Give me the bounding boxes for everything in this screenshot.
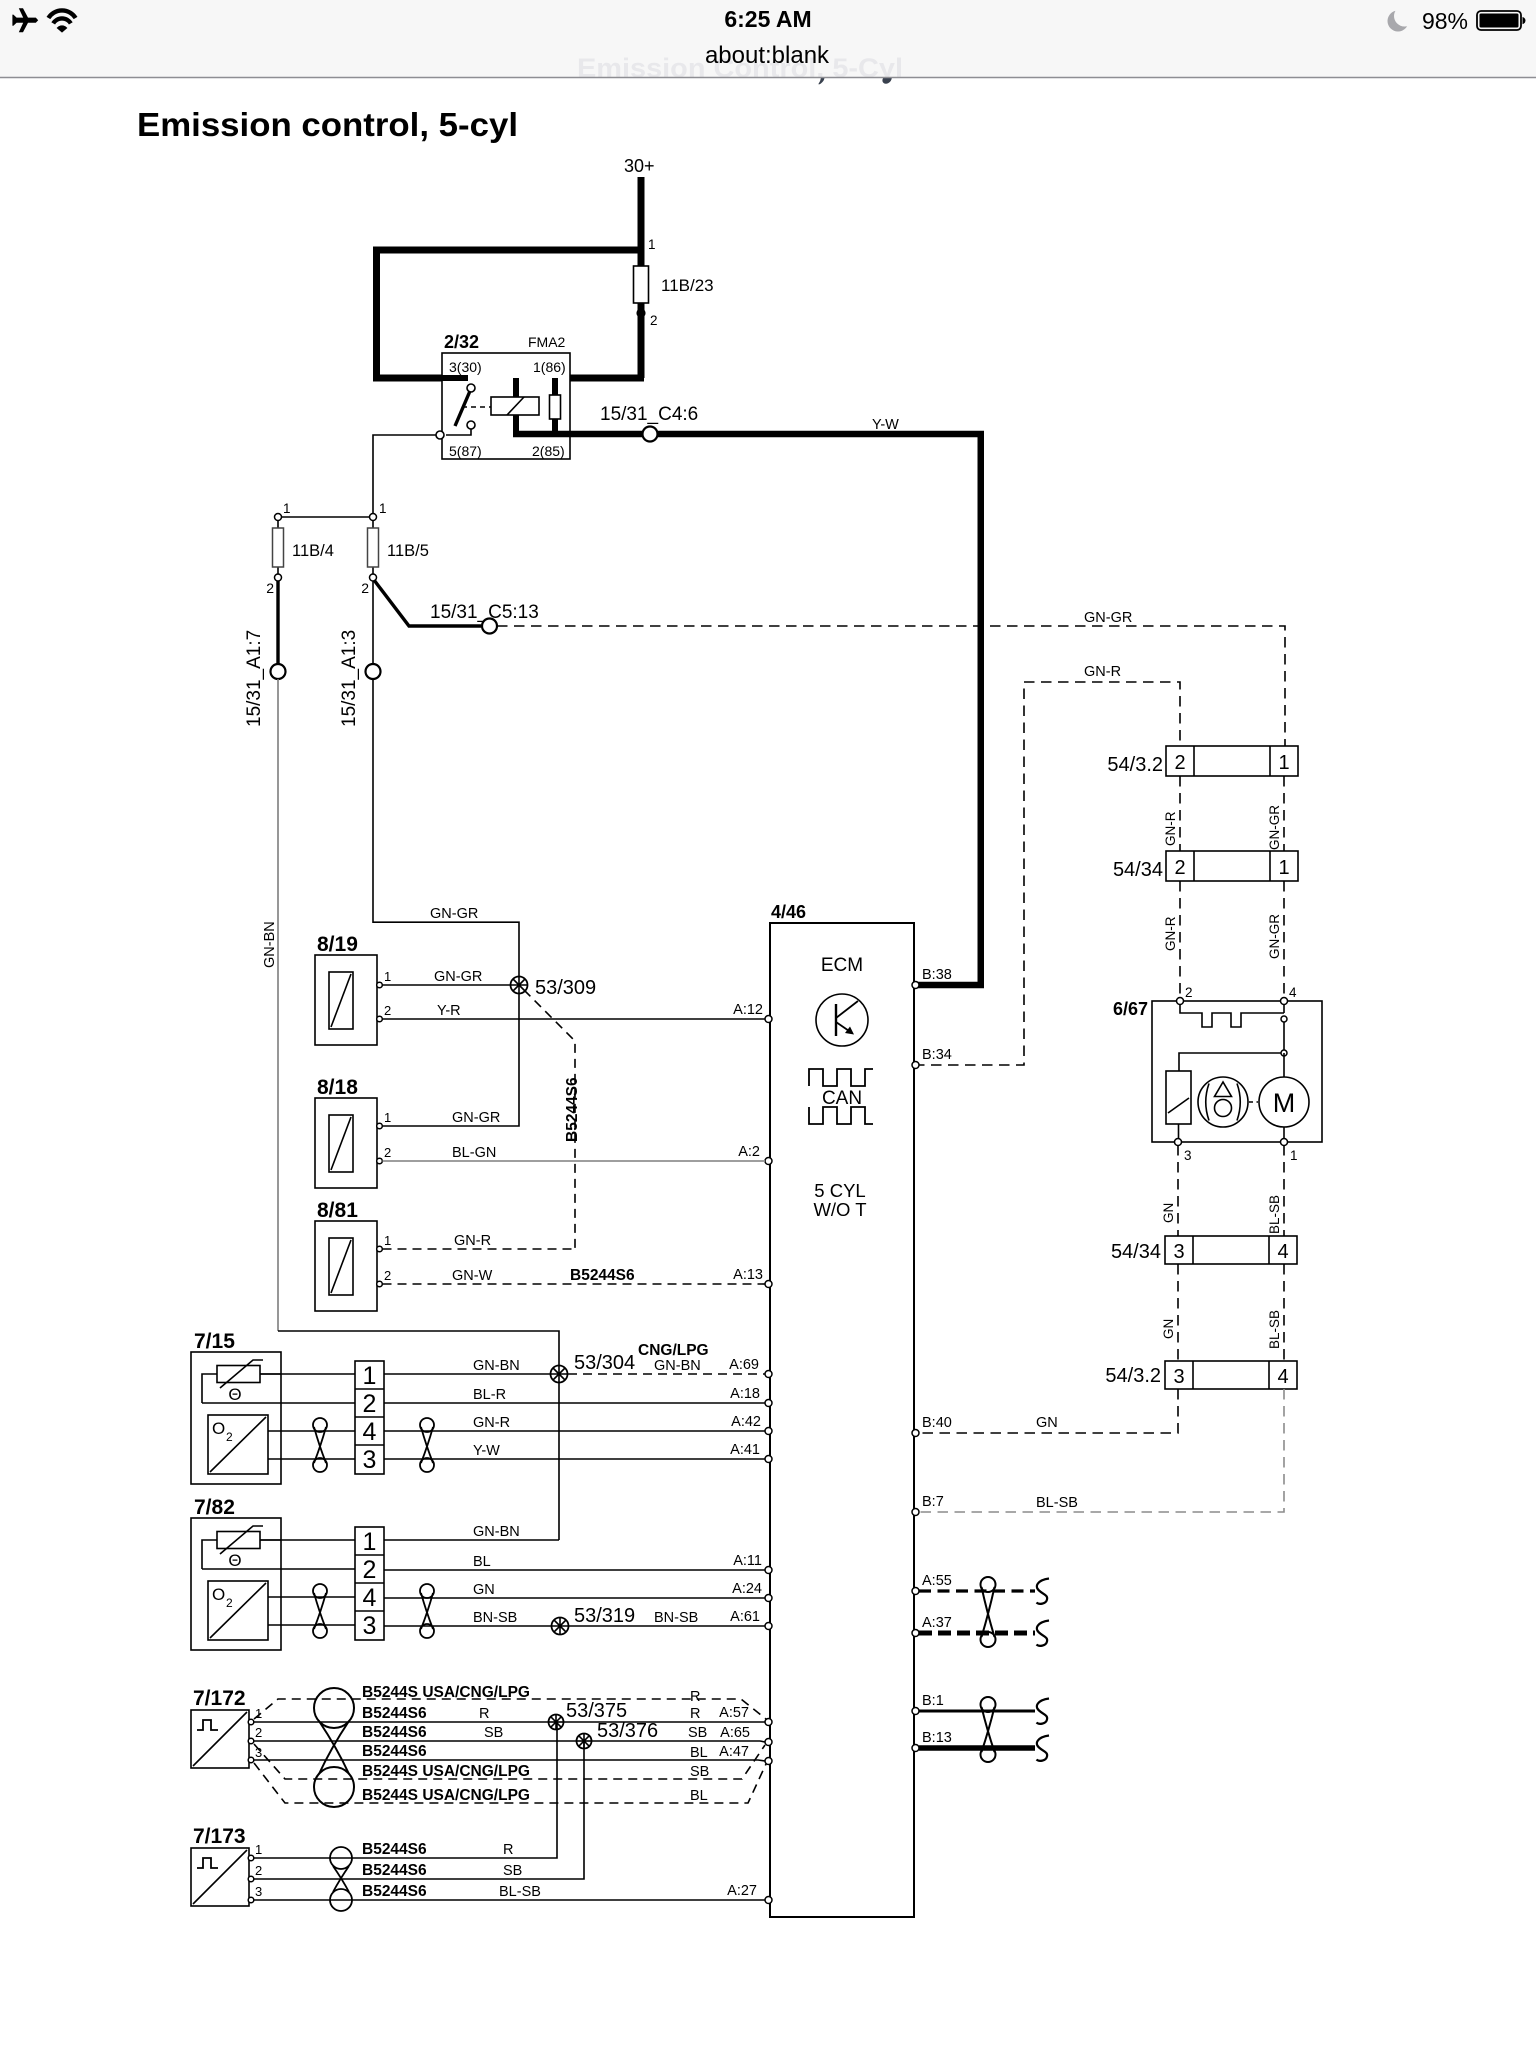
svg-text:1: 1 [363,1528,377,1556]
wire thick bus: horizontal to relay branch [373,247,641,254]
7/173 pin 2 [248,1876,254,1882]
svg-text:2: 2 [384,1145,391,1160]
wire B5244S6 dashed branch from splice down [524,990,575,1249]
sensor 8/81 box [315,1221,377,1311]
svg-text:B5244S6: B5244S6 [362,1743,427,1760]
svg-text:3: 3 [1173,1366,1184,1388]
svg-text:2: 2 [255,1863,262,1878]
svg-text:GN-R: GN-R [473,1415,510,1431]
svg-text:1: 1 [255,1706,262,1721]
ECM pin B:7 [912,1509,919,1516]
ECM pin A:65 [765,1739,772,1746]
wire BL-R 7/15 row2 to ECM A:18 [384,1402,765,1404]
svg-text:BL-SB: BL-SB [1036,1495,1078,1511]
svg-text:A:61: A:61 [730,1609,760,1625]
relay switch contact to 5(87) wire [446,429,471,435]
svg-text:1: 1 [255,1842,262,1857]
6/67 pin 3 [1175,1139,1182,1146]
airplane mode icon [12,8,38,32]
wire GN-GR dashed between 54/3.2 and 54/34 [1283,776,1285,851]
svg-text:1: 1 [648,237,656,252]
svg-text:54/3.2: 54/3.2 [1105,1365,1161,1387]
svg-text:CAN: CAN [822,1088,862,1109]
8/19 pin 2 [377,1016,383,1022]
relay 2/32 box [442,353,570,459]
wire GN-BN dashed CNG/LPG branch to ECM A:69 [568,1373,765,1375]
fuse 11B/23 [634,266,649,303]
ECM pin B:13 [912,1745,919,1752]
ECM pin A:12 [765,1016,772,1023]
6/67 motor M [1283,1053,1285,1077]
node pin 1 of 11B/4 [275,514,282,521]
relay pin 2(85) thick wire out [513,431,642,438]
svg-text:BN-SB: BN-SB [654,1610,698,1626]
relay coil [491,397,539,415]
7/82 O2 row wires [268,1596,355,1598]
6/67 sender resistor track (square wave) [1180,1004,1284,1027]
wire B:1 stub [919,1710,1035,1713]
node pin 2 of 11B/5 [370,574,377,581]
twisted pair B:1/B:13 [981,1697,996,1712]
svg-text:1: 1 [1278,752,1289,774]
svg-text:5 CYL: 5 CYL [814,1180,865,1201]
6/67 pin 1 [1281,1139,1288,1146]
svg-text:30+: 30+ [624,156,655,176]
svg-text:B5244S6: B5244S6 [362,1724,427,1741]
svg-text:SB: SB [688,1725,707,1741]
svg-text:7/173: 7/173 [193,1825,246,1848]
svg-text:A:11: A:11 [733,1553,762,1569]
ECM pin A:2 [765,1158,772,1165]
svg-text:GN-BN: GN-BN [654,1358,701,1374]
ECM pin A:18 [765,1400,772,1407]
wire from A1:3 down to GN-GR branch [372,679,374,923]
svg-text:A:13: A:13 [733,1267,763,1283]
svg-text:2(85): 2(85) [532,443,565,459]
page heading showing under toolbar (descenders of comma and y) [819,78,825,84]
wire A:55 CAN high dashed stub [919,1589,1035,1592]
fuse 11B/4 [277,521,279,575]
svg-text:Θ: Θ [228,1551,241,1570]
svg-text:54/34: 54/34 [1111,1241,1161,1263]
wire BL-SB dashed 6/67 pin1 to 54/34 [1283,1145,1285,1236]
wire BL-GN (gray) 8/18 pin 2 to ECM A:2 [383,1160,766,1162]
relay switch arm [455,391,470,426]
svg-text:R: R [690,1689,700,1705]
ECM pin A:37 [912,1630,919,1637]
svg-text:CNG/LPG: CNG/LPG [638,1342,709,1359]
svg-text:11B/23: 11B/23 [661,276,714,295]
wire GN-BN trunk right and down [278,1331,559,1537]
svg-text:B5244S USA/CNG/LPG: B5244S USA/CNG/LPG [362,1763,530,1780]
7/15 heater leads [202,1374,281,1403]
wire SB 7/173 pin2 up to splice 53/376 [254,1741,584,1879]
svg-text:GN-GR: GN-GR [1267,914,1282,959]
svg-text:15/31_A1:3: 15/31_A1:3 [339,630,360,727]
svg-text:A:24: A:24 [732,1581,762,1597]
svg-text:GN: GN [1161,1203,1176,1223]
svg-text:GN-GR: GN-GR [1267,805,1282,850]
svg-text:54/34: 54/34 [1113,859,1163,881]
svg-text:B5244S6: B5244S6 [362,1705,427,1722]
svg-text:2: 2 [1174,752,1185,774]
6/67 sender element [1166,1071,1191,1124]
ECM pin A:42 [765,1428,772,1435]
wire BL 7/82 row2 to ECM A:11 [384,1569,765,1571]
svg-text:2: 2 [1185,985,1193,1000]
wire dashed B5244S USA/CNG/LPG BL [254,1763,766,1803]
svg-text:53/376: 53/376 [597,1720,658,1742]
svg-text:GN-GR: GN-GR [452,1110,500,1126]
wire GN-W dashed 8/81 pin 2 to ECM A:13 [383,1283,766,1285]
svg-text:GN-BN: GN-BN [262,921,278,968]
splice 53/376 [577,1734,592,1749]
7/82 heater resistor [217,1532,260,1549]
svg-text:1: 1 [283,501,291,516]
svg-text:7/82: 7/82 [194,1496,235,1519]
svg-text:1: 1 [384,969,391,984]
svg-text:7/15: 7/15 [194,1330,235,1353]
relay switch feed (thick stub inside) [442,375,468,381]
node pin 2 of 11B/4 [275,574,282,581]
svg-text:11B/5: 11B/5 [387,542,429,560]
svg-text:A:2: A:2 [738,1144,760,1160]
wire BL-SB 7/173 pin3 to ECM A:27 [254,1899,765,1901]
svg-text:6:25 AM: 6:25 AM [724,6,811,32]
wire GN-R dashed from ECM B:34 up and over to 54/3.2 pin 2 [914,682,1180,1065]
wire dashed B5244S USA/CNG/LPG SB [254,1744,765,1779]
svg-text:2: 2 [266,580,274,596]
twisted pair 7/82 outer [420,1584,434,1598]
svg-text:SB: SB [484,1725,503,1741]
svg-text:2: 2 [255,1725,262,1740]
wire SB 7/172 pin2 to splice 53/376 and ECM A:65 [254,1741,765,1742]
wire thick 11B/4 pin2 to connector A1:7 [276,581,279,664]
wire fuse rail linking 11B/4 and 11B/5 tops [282,516,370,518]
svg-text:BL: BL [473,1554,491,1570]
svg-text:4: 4 [363,1418,377,1446]
wire Y-R 8/19 pin 2 to ECM A:12 [383,1018,766,1020]
wire GN dashed 6/67 pin3 to 54/34 [1177,1145,1179,1236]
sensor 8/19 box [315,955,377,1045]
ECM pin A:57 [765,1719,772,1726]
ECM CAN symbol [809,1069,873,1086]
svg-text:R: R [479,1706,489,1722]
ECM transistor symbol [816,994,868,1046]
svg-text:O: O [212,1419,225,1438]
relay pin 5(87) terminal circle [436,431,444,439]
svg-text:Y-R: Y-R [437,1003,461,1019]
svg-text:4/46: 4/46 [771,902,806,922]
6/67 internal link [1283,1022,1285,1050]
7/15 O2 row wires [268,1430,355,1432]
svg-text:A:69: A:69 [729,1357,759,1373]
svg-text:1(86): 1(86) [533,359,566,375]
svg-text:A:37: A:37 [922,1615,952,1631]
connector pin block 7/15 [355,1361,384,1474]
relay actuation dashed link [462,406,491,408]
wire Y-W 7/15 row3 to ECM A:41 [384,1458,765,1460]
wire GN 7/82 row4 to ECM A:24 [384,1597,765,1599]
7/173 pin 1 [248,1855,254,1861]
svg-text:GN-GR: GN-GR [434,969,482,985]
svg-text:A:18: A:18 [730,1386,760,1402]
connector 15/31_A1:7 [271,664,286,679]
svg-text:2: 2 [363,1390,377,1418]
svg-text:A:41: A:41 [730,1442,760,1458]
svg-text:53/309: 53/309 [535,977,596,999]
ECM pin A:24 [765,1595,772,1602]
wire GN-R 7/15 row4 to ECM A:42 [384,1430,765,1432]
ECM pin A:41 [765,1456,772,1463]
svg-text:2: 2 [226,1596,233,1610]
svg-text:1: 1 [384,1110,391,1125]
toolbar bottom hairline [0,77,1536,79]
svg-text:BL-SB: BL-SB [499,1884,541,1900]
svg-text:2: 2 [650,313,658,328]
svg-text:about:blank: about:blank [705,42,830,69]
svg-text:BL-SB: BL-SB [1267,1310,1282,1349]
svg-text:8/81: 8/81 [317,1199,358,1222]
svg-text:3: 3 [1173,1241,1184,1263]
wire below fuse 11B/23 down to relay pin 1(86) level [638,303,645,378]
6/67 branch to sender arm [1179,1053,1281,1071]
ECM pin A:11 [765,1567,772,1574]
svg-text:53/304: 53/304 [574,1352,635,1374]
svg-text:7/172: 7/172 [193,1687,246,1710]
wire GN-GR dashed from C5:13 to 54/3.2 pin 1 [497,626,1285,746]
wire GN-GR 8/19 pin 1 to splice [383,984,512,986]
svg-text:W/O T: W/O T [813,1199,866,1220]
6/67 pin 2 [1177,998,1184,1005]
wire R 7/172 pin1 to splice 53/375 and ECM A:57 [254,1721,765,1723]
7/15 heater row wires to connector [202,1402,355,1404]
svg-text:3: 3 [363,1446,377,1474]
svg-text:53/319: 53/319 [574,1605,635,1627]
8/81 pin 2 [377,1281,383,1287]
twisted pair A:55/A:37 [981,1577,996,1592]
7/172 pin 3 [248,1757,254,1763]
wire GN dashed 54/34 to 54/3.2 [1177,1264,1179,1361]
svg-text:GN-BN: GN-BN [473,1358,520,1374]
8/18 pin 2 [377,1158,383,1164]
faint page title seen through toolbar [577,53,903,83]
svg-text:5(87): 5(87) [449,443,482,459]
7/173 pin 3 [248,1897,254,1903]
6/67 internal node top [1283,1004,1285,1013]
ECM pin B:40 [912,1430,919,1437]
relay internal resistor [552,378,558,437]
8/19 pin 1 [377,982,383,988]
wifi icon [48,10,75,32]
ECM pin A:27 [765,1897,772,1904]
wire thick left branch down to relay pin 3(30) [373,250,443,378]
7/15 heater resistor [217,1366,260,1383]
wire GN dashed 54/3.2 to ECM B:40 [914,1389,1178,1433]
svg-text:53/375: 53/375 [566,1700,627,1722]
svg-text:BL-GN: BL-GN [452,1145,496,1161]
svg-text:FMA2: FMA2 [528,334,566,350]
svg-text:BL-R: BL-R [473,1387,506,1403]
status bar background [0,0,1536,77]
svg-text:R: R [503,1842,513,1858]
svg-text:3(30): 3(30) [449,359,482,375]
svg-text:2: 2 [361,580,369,596]
ECM pin A:61 [765,1623,772,1630]
svg-text:98%: 98% [1422,8,1468,34]
wire BL-SB gray dashed 54/3.2 to ECM B:7 [914,1389,1284,1512]
svg-text:GN: GN [1161,1319,1176,1339]
svg-text:GN-R: GN-R [1163,811,1178,846]
svg-text:B:13: B:13 [922,1730,952,1746]
svg-text:BL-SB: BL-SB [1267,1195,1282,1234]
7/172 pin 1 [248,1719,254,1725]
wire thick from vertical into relay pin 1(86) [570,375,644,382]
ECM pin B:34 [912,1062,919,1069]
svg-text:GN: GN [1036,1415,1058,1431]
svg-text:2: 2 [384,1003,391,1018]
7/82 heater leads [202,1540,281,1569]
svg-text:B5244S USA/CNG/LPG: B5244S USA/CNG/LPG [362,1684,530,1701]
svg-text:Y-W: Y-W [872,417,899,433]
wire BL-SB dashed 54/34 to 54/3.2 [1283,1264,1285,1361]
wire thick 11B/5 pin2 branch to connector C5:13 [374,580,481,626]
svg-text:R: R [690,1706,700,1722]
svg-text:15/31_C4:6: 15/31_C4:6 [600,404,698,425]
svg-text:3: 3 [255,1884,262,1899]
twisted bundle 7/173 [330,1847,352,1869]
svg-text:GN-R: GN-R [1084,664,1121,680]
svg-text:A:65: A:65 [720,1725,750,1741]
6/67 pump-motor coupling dashes [1249,1101,1258,1103]
svg-text:15/31_A1:7: 15/31_A1:7 [244,630,265,727]
svg-text:B5244S6: B5244S6 [570,1267,635,1284]
relay coil feed wires [513,378,519,437]
ECM pin A:55 [912,1588,919,1595]
svg-text:4: 4 [1277,1241,1288,1263]
wire GN-BN 7/82 row1 from trunk [384,1539,559,1541]
svg-text:B:38: B:38 [922,967,952,983]
svg-text:2: 2 [226,1430,233,1444]
svg-text:54/3.2: 54/3.2 [1107,754,1163,776]
svg-text:1: 1 [1278,857,1289,879]
svg-text:1: 1 [1290,1148,1298,1163]
wire A:37 CAN low dashed stub [919,1631,1035,1636]
svg-text:3: 3 [363,1612,377,1640]
junction dot pin 2 of 11B/23 [636,308,645,317]
svg-text:1: 1 [379,501,387,516]
ECM pin B:38 [912,982,919,989]
svg-text:2: 2 [363,1556,377,1584]
svg-text:B5244S6: B5244S6 [362,1841,427,1858]
svg-text:GN-GR: GN-GR [430,906,478,922]
svg-text:B5244S6: B5244S6 [362,1883,427,1900]
svg-text:8/19: 8/19 [317,933,358,956]
battery icon [1477,11,1526,30]
svg-text:M: M [1273,1088,1296,1118]
svg-text:1: 1 [363,1362,377,1390]
svg-text:O: O [212,1585,225,1604]
relay switch fixed contact [467,421,475,429]
7/15 O2 cell [208,1415,268,1474]
wire BN-SB 7/82 row3 to splice 53/319 and ECM A:61 [384,1625,765,1627]
wire GN-R dashed down to 6/67 pin 2 [1179,881,1181,996]
wire B:13 stub [919,1745,1035,1751]
svg-text:A:57: A:57 [719,1705,749,1721]
fuse 11B/5 [372,521,374,575]
svg-text:Y-W: Y-W [473,1443,500,1459]
svg-text:B5244S USA/CNG/LPG: B5244S USA/CNG/LPG [362,1787,530,1804]
wire GN-R dashed between 54/3.2 and 54/34 [1179,776,1181,851]
8/18 pin 1 [377,1123,383,1129]
splice 53/375 [549,1715,564,1730]
svg-text:2: 2 [384,1268,391,1283]
svg-text:GN-BN: GN-BN [473,1524,520,1540]
svg-text:BL: BL [690,1745,708,1761]
7/82 heater row wires [202,1568,355,1570]
svg-text:A:12: A:12 [733,1002,763,1018]
svg-text:B:1: B:1 [922,1693,944,1709]
big twisted bundle 7/172 [314,1688,354,1728]
wire from relay 5(87) down to fuse rail [373,435,436,513]
splice 53/319 [552,1618,569,1635]
ECM pin A:69 [765,1371,772,1378]
wire GN-BN 7/15 row1 to splice 53/304 [384,1373,551,1375]
node pin 1 of 11B/5 [370,514,377,521]
svg-text:2: 2 [1174,857,1185,879]
svg-text:B5244S6: B5244S6 [362,1862,427,1879]
wire 30+ thick feed down to fuse 11B/23 [638,177,645,266]
splice 53/309 [511,977,528,994]
wire GN-GR dashed down to 6/67 pin 4 [1283,881,1285,996]
ECM pin A:13 [765,1281,772,1288]
connector 15/31_A1:3 [366,664,381,679]
svg-text:1: 1 [384,1233,391,1248]
twisted pair 7/15 outer [420,1418,434,1432]
svg-text:GN-GR: GN-GR [1084,610,1132,626]
8/81 pin 1 [377,1246,383,1252]
svg-text:8/18: 8/18 [317,1076,358,1099]
connector pin block 7/82 [355,1527,384,1640]
wire 11B/5 pin2 down to connector A1:3 [372,581,374,664]
svg-text:A:27: A:27 [727,1883,757,1899]
6/67 pump symbol [1198,1077,1248,1127]
svg-text:A:47: A:47 [719,1744,749,1760]
wire R 7/173 pin1 up to splice 53/375 [254,1722,557,1858]
twisted pair 7/82 inner [313,1584,327,1598]
svg-text:GN: GN [473,1582,495,1598]
svg-text:2/32: 2/32 [444,332,479,352]
svg-text:B:40: B:40 [922,1415,952,1431]
wire GN-R dashed 8/81 pin 1 [383,1248,576,1250]
svg-text:BN-SB: BN-SB [473,1610,517,1626]
wire BL 7/172 pin3 to ECM A:47 [254,1760,765,1761]
svg-text:B5244S6: B5244S6 [564,1077,581,1142]
svg-text:A:55: A:55 [922,1573,952,1589]
ECM pin A:47 [765,1758,772,1765]
wire dashed B5244S USA/CNG/LPG R (top) [254,1699,766,1719]
svg-text:4: 4 [1289,985,1297,1000]
svg-text:B:7: B:7 [922,1494,944,1510]
moon (do not disturb) icon [1388,6,1416,32]
svg-text:3: 3 [1184,1148,1192,1163]
svg-text:4: 4 [1277,1366,1288,1388]
svg-text:BL: BL [690,1788,708,1804]
wire GN-GR from A1:3 over and down to 8/18 pin 1 [373,922,519,1126]
splice 53/304 [551,1366,568,1383]
ECM pin B:1 [912,1708,919,1715]
svg-text:SB: SB [690,1764,709,1780]
